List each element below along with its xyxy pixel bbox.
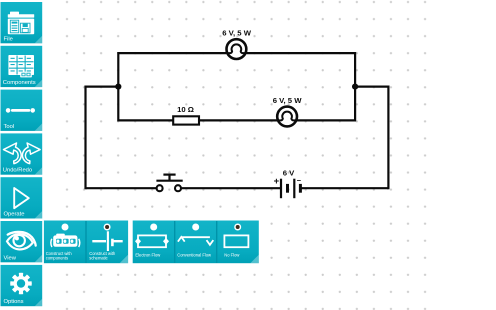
- wire inner left vertical: [117, 52, 119, 122]
- svg-text:Conventional Flow: Conventional Flow: [177, 252, 211, 257]
- battery B1 (6 V): [281, 179, 300, 199]
- svg-text:File: File: [4, 36, 13, 42]
- toolbar button Conventional Flow: [177, 224, 213, 258]
- wire middle branch segment 2: [199, 119, 277, 121]
- toolbar button Construct with components (radio unchecked): [46, 224, 80, 261]
- svg-text:No Flow: No Flow: [224, 252, 239, 257]
- resistor R1 (10 ohm): [173, 116, 199, 124]
- lamp L2 (6 V, 5 W) middle branch: [277, 107, 297, 127]
- wire bottom left segment: [86, 187, 157, 189]
- svg-text:Options: Options: [4, 299, 24, 305]
- svg-text:6 V, 5 W: 6 V, 5 W: [273, 96, 303, 105]
- wire outer right vertical: [387, 86, 389, 190]
- svg-text:Components: Components: [3, 80, 36, 86]
- wire left node stub: [86, 85, 119, 87]
- svg-text:Tool: Tool: [4, 124, 15, 130]
- circuit schematic: [86, 52, 389, 189]
- canvas dotted grid: [59, 0, 433, 310]
- svg-text:6 V: 6 V: [283, 169, 295, 178]
- lamp L1 (6 V, 5 W) top branch: [227, 39, 247, 59]
- toolbar button Construct with schematic (radio checked): [89, 224, 122, 261]
- wire middle branch segment 1: [118, 119, 173, 121]
- toolbar group 2 panel: [133, 221, 259, 264]
- toolbar group 1 panel: [44, 221, 128, 264]
- wire bottom right segment: [300, 187, 388, 189]
- wire right node stub: [355, 85, 388, 87]
- node junction left: [115, 84, 121, 90]
- sidebar tile File: [1, 2, 43, 43]
- sidebar tile Operate: [1, 177, 43, 218]
- wire middle branch segment 3: [297, 119, 355, 121]
- sidebar tile Undo/Redo: [1, 133, 43, 174]
- sidebar tile Tool: [1, 90, 43, 131]
- wire battery to switch segment: [181, 187, 280, 189]
- switch S1 (push button): [156, 175, 182, 192]
- toolbar button Electron Flow: [135, 224, 169, 258]
- svg-text:10 Ω: 10 Ω: [177, 105, 194, 114]
- sidebar tile View: [1, 221, 43, 262]
- wire top branch right segment: [246, 52, 355, 54]
- svg-text:6 V, 5 W: 6 V, 5 W: [222, 28, 252, 37]
- svg-text:components: components: [46, 255, 68, 260]
- sidebar tile Components: [1, 46, 43, 87]
- svg-text:Undo/Redo: Undo/Redo: [3, 168, 32, 174]
- toolbar button No Flow (radio checked): [224, 224, 248, 258]
- sidebar tile Options: [1, 265, 43, 306]
- wire inner right vertical: [354, 52, 356, 122]
- svg-text:+: +: [274, 176, 280, 187]
- svg-text:−: −: [297, 176, 302, 185]
- svg-text:View: View: [4, 255, 17, 261]
- svg-text:Operate: Operate: [4, 212, 25, 218]
- svg-text:schematic: schematic: [89, 255, 107, 260]
- wire outer left vertical: [84, 86, 86, 190]
- node junction right: [352, 84, 358, 90]
- wire top branch left segment: [118, 52, 226, 54]
- svg-text:Electron Flow: Electron Flow: [135, 252, 160, 257]
